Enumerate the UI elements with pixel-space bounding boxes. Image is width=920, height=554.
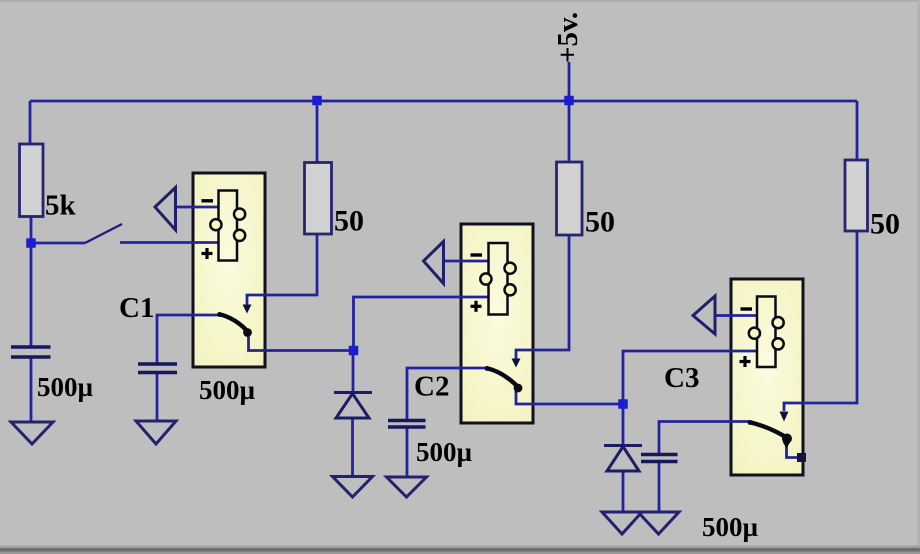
svg-text:C3: C3 (664, 362, 699, 394)
K3 contact arrow (780, 412, 789, 422)
wire rail to R3 top (568, 101, 571, 163)
K2 minus sign (471, 253, 483, 256)
junction node B (618, 399, 628, 409)
K1 minus sign (202, 199, 214, 202)
junction node rail-R2 (312, 96, 322, 106)
wire rail to R4 top (856, 101, 859, 161)
wire switch to K1 plus (120, 241, 219, 244)
K3 minus sign (741, 307, 753, 310)
input arrow 2 (424, 242, 444, 284)
junction node A (349, 346, 359, 356)
relay K3 box (731, 279, 803, 475)
wire arrow2 to K2 minus (444, 260, 489, 263)
wire K1 contact out to node A (249, 334, 354, 351)
resistor 50 (1) (305, 163, 332, 235)
ground (C1) (136, 421, 176, 444)
wire top power rail (30, 100, 857, 103)
ground (C2) (387, 477, 427, 497)
ground (D2) (602, 512, 642, 534)
svg-text:C1: C1 (119, 292, 154, 324)
wire junction to switch (31, 242, 85, 245)
wire node A down to D1 (352, 351, 355, 393)
coil K1 (210, 191, 245, 261)
svg-text:C2: C2 (414, 371, 449, 403)
wire R4 bottom jog into K3 (784, 230, 857, 411)
resistor 5k (20, 144, 44, 217)
wire C3 to ground (658, 462, 661, 513)
wire C3 to K3 pole (659, 422, 749, 455)
svg-text:50: 50 (585, 206, 615, 239)
wire left drop to 5k (29, 101, 32, 145)
wire arrow1 to K1 minus (175, 206, 219, 209)
K2 switch blade (485, 366, 523, 392)
input arrow 3 (693, 296, 715, 334)
wire K3 contact out (787, 443, 801, 458)
wire C1 to K1 pole (157, 315, 219, 364)
wire C1 to ground (156, 373, 159, 422)
wire C2 to K2 pole (407, 368, 486, 421)
relay K2 box (461, 224, 533, 423)
coil K3 (749, 297, 784, 368)
resistor 50 (2) (557, 162, 583, 235)
wire cap to ground (30, 357, 33, 422)
wire node B up to K3 plus (623, 351, 757, 404)
K3 plus sign (740, 356, 751, 367)
K2 plus sign (471, 301, 482, 312)
ground (C3) (638, 512, 679, 534)
capacitor C3 (641, 455, 678, 462)
K1 contact arrow (243, 305, 252, 314)
capacitor C1 (138, 364, 177, 373)
junction node rail-+5v (564, 96, 574, 106)
svg-text:500µ: 500µ (416, 437, 473, 467)
wire 5k bottom to junction to cap (30, 216, 33, 347)
switch SW1 blade (85, 224, 122, 243)
wire rail to R2 top (316, 101, 319, 163)
K2 contact arrow (512, 359, 521, 368)
K1 plus sign (202, 248, 213, 259)
svg-text:500µ: 500µ (37, 372, 94, 402)
svg-text:50: 50 (870, 208, 900, 241)
coil K2 (480, 243, 515, 315)
capacitor 500u (input) (11, 347, 51, 357)
input arrow 1 (155, 188, 176, 231)
wire arrow3 to K3 minus (715, 314, 757, 317)
svg-text:+5v.: +5v. (552, 12, 584, 63)
wire +5v drop (568, 62, 571, 101)
wire D2 to ground (622, 471, 625, 512)
diode D1 (334, 393, 372, 419)
diode D2 (604, 446, 642, 472)
wire D1 to ground (351, 418, 354, 477)
ground (input cap) (11, 422, 53, 444)
svg-text:500µ: 500µ (702, 512, 759, 542)
relay K1 box (193, 173, 265, 367)
wire R2 bottom jog into K1 (247, 234, 317, 305)
wire K2 contact out to node B (516, 390, 623, 405)
svg-text:5k: 5k (45, 190, 77, 222)
wire node A up to K2 plus (354, 297, 489, 351)
K1 switch blade (217, 312, 252, 337)
wire node B down to D2 (622, 404, 625, 445)
ground (D1) (333, 477, 373, 498)
svg-text:500µ: 500µ (199, 375, 256, 405)
wire R3 bottom jog into K2 (516, 234, 569, 359)
svg-text:50: 50 (334, 205, 364, 238)
K3 switch blade (748, 420, 792, 448)
terminal square K3 output (797, 453, 806, 462)
wire C2 to ground (406, 427, 409, 477)
capacitor C2 (388, 421, 426, 428)
junction node 5k-switch (26, 238, 36, 248)
resistor 50 (3) (845, 160, 868, 231)
